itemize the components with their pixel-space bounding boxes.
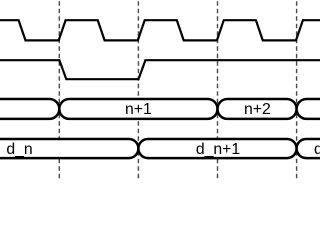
svg-text:d_n+2: d_n+2	[314, 141, 320, 158]
svg-text:d_n: d_n	[6, 141, 32, 158]
clock gridline t2	[137, 0, 139, 180]
bus row 4 segment d_n+2 (partial)	[297, 139, 320, 158]
clock gridline t4	[296, 0, 298, 180]
bus row 4 segment d_n (partial)	[0, 139, 138, 158]
clock gridline t3	[217, 0, 219, 180]
bus row 3 segment n+1	[59, 99, 217, 119]
bus row 3 segment n (partial)	[0, 99, 59, 119]
svg-text:d_n+1: d_n+1	[196, 141, 241, 158]
bus row 3 segment n+3 (partial)	[297, 99, 320, 119]
clock gridline t1	[58, 0, 60, 180]
clock waveform row 1	[0, 20, 320, 40]
signal waveform row 2	[0, 60, 320, 79]
bus row 3 segment n+2	[218, 99, 297, 119]
svg-text:n+1: n+1	[125, 101, 152, 118]
svg-text:n+2: n+2	[244, 101, 271, 118]
bus row 4 segment d_n+1	[138, 139, 296, 158]
